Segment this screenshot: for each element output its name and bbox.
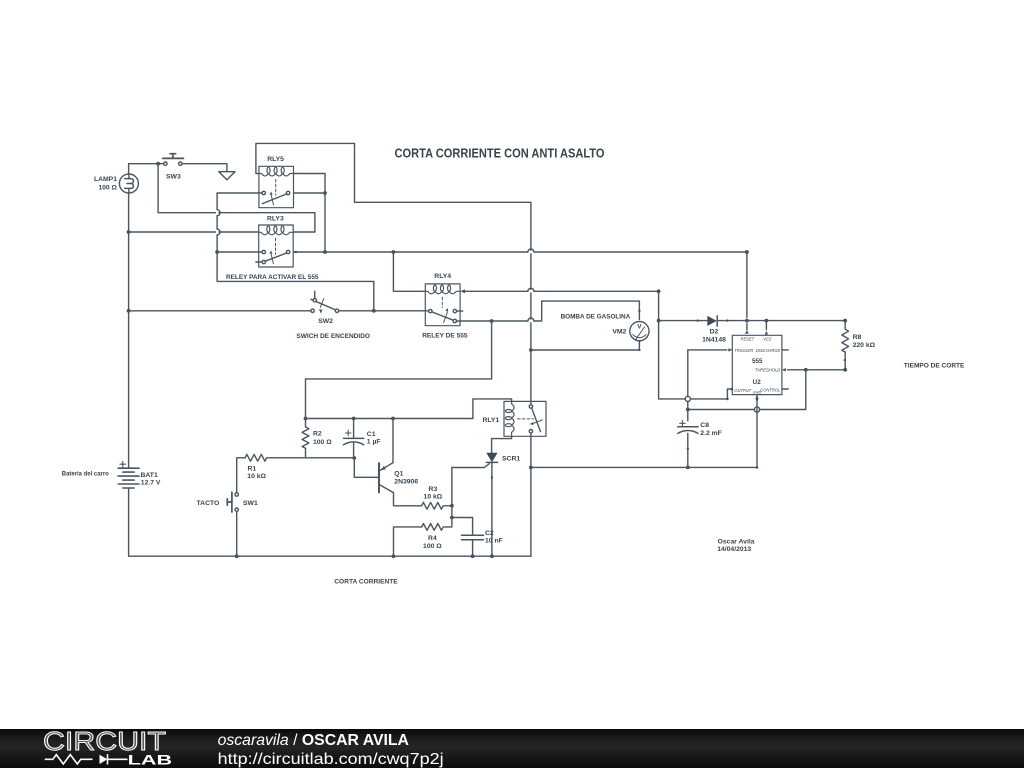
node rail dot y310.8 (127, 309, 131, 313)
svg-text:oscaravila / OSCAR AVILA: oscaravila / OSCAR AVILA (218, 732, 409, 749)
transistor Q1 2N3906 (378, 463, 394, 493)
svg-text:TRIGGER: TRIGGER (734, 348, 753, 353)
wire SW3 right to antenna (182, 164, 227, 172)
U2 pin RESET arrow (745, 330, 748, 334)
node terminal dot D2 left (697, 319, 699, 321)
svg-text:http://circuitlab.com/cwq7p2j: http://circuitlab.com/cwq7p2j (218, 751, 444, 768)
resistor R1 (245, 454, 267, 461)
switch SW1 pushbutton (227, 492, 238, 512)
node dot output pin (731, 388, 734, 391)
wire RLY4 contact to R2 top (306, 321, 492, 427)
svg-text:C1: C1 (367, 431, 376, 438)
svg-text:R3: R3 (429, 486, 438, 493)
wire RLY5 coil left loop (256, 143, 531, 202)
svg-text:2.2 mF: 2.2 mF (700, 430, 722, 437)
wire SCR gate horizontal (452, 464, 489, 468)
svg-text:R8: R8 (853, 334, 862, 341)
wire control stub (782, 388, 788, 390)
wire hop vertical x217 over y232 (217, 229, 220, 235)
wire bus to RLY4 coil left (393, 252, 425, 291)
U2 pin VCC arrow (765, 331, 768, 335)
antenna symbol (219, 172, 235, 180)
wire RLY3 left contact (217, 251, 262, 253)
wire SW1 bottom to rail (236, 511, 238, 556)
capacitor C1 polarized (344, 419, 364, 459)
node dot VCC junction (765, 319, 769, 323)
svg-text:D2: D2 (710, 329, 719, 336)
wire output return to 555 (659, 389, 732, 399)
svg-text:1 µF: 1 µF (367, 439, 381, 446)
node dot C1 bottom junction (352, 456, 356, 460)
lamp LAMP1 (119, 174, 138, 193)
svg-text:RLY5: RLY5 (267, 156, 284, 163)
voltmeter VM2 (630, 322, 649, 342)
switch SW2 (311, 291, 339, 313)
logo resistor squiggle (45, 755, 93, 764)
node dot x373.8 y310.8 (372, 309, 376, 313)
wire hop vertical x217 over y212.7 (217, 210, 220, 216)
wire threshold feedback (688, 370, 806, 410)
wire RLY1 bottom contact to rail (530, 433, 532, 556)
svg-text:12.7 V: 12.7 V (141, 479, 161, 486)
diode D2 (707, 316, 717, 326)
svg-text:RESET: RESET (741, 337, 755, 342)
node dot x530.9 y350 (529, 348, 533, 352)
capacitor C8 polarized (678, 421, 698, 434)
node dot threshold junction (804, 368, 808, 372)
svg-text:SW1: SW1 (243, 500, 258, 507)
svg-text:V: V (637, 324, 642, 331)
node rail dot SW1 (235, 554, 239, 558)
battery BAT1 (118, 461, 139, 488)
svg-text:C2: C2 (485, 530, 494, 537)
wire R3 right junction (444, 505, 452, 507)
node dot x530.9 y467.4 (529, 466, 533, 470)
wire SW2 to RLY4 left contact (339, 310, 429, 312)
thyristor SCR1 (486, 453, 497, 463)
wire SW3 loop to RLY3 coil right (158, 164, 315, 232)
svg-text:GND: GND (753, 390, 762, 394)
svg-text:220 kΩ: 220 kΩ (853, 342, 876, 349)
wire hop y252 over x530.9 (528, 249, 534, 252)
svg-text:10 kΩ: 10 kΩ (247, 473, 266, 480)
wire SCR gate link vertical (451, 468, 453, 518)
svg-text:VCC: VCC (763, 336, 772, 341)
capacitor C2 (462, 535, 484, 539)
wire R2 bottom R1 junction (267, 448, 354, 458)
wire R8 bottom lead (788, 352, 846, 370)
logo diode symbol (100, 755, 108, 764)
svg-text:C8: C8 (700, 422, 709, 429)
wire D2 line y320.6 (659, 321, 846, 330)
node rail dot y232 (127, 230, 131, 234)
svg-text:100 Ω: 100 Ω (423, 543, 442, 550)
svg-text:R2: R2 (313, 431, 322, 438)
node dot x727.4 y398.9 (726, 398, 729, 401)
node rail dot C2 (471, 554, 475, 558)
wire trigger to C8 (688, 350, 727, 421)
wire RLY5 coil right to bus (294, 174, 326, 253)
svg-text:10 nF: 10 nF (485, 538, 503, 545)
U2 pin GND arrow (755, 395, 758, 399)
node dot x325 y252 (323, 250, 327, 254)
svg-text:LAB: LAB (128, 753, 173, 768)
node dot R2 junction y418.5 (304, 417, 308, 421)
node dot x217 y252 (215, 250, 219, 254)
node junction dot SW3 left (156, 162, 160, 166)
wire hop y321 over x530.9 (528, 318, 534, 321)
node dot corner x845.2 y320.6 (843, 319, 847, 323)
wire RLY4 lower contact to pump loop (457, 301, 640, 321)
wire battery bottom to ground rail (129, 489, 531, 557)
node rail dot R4 (392, 554, 396, 558)
wire main vertical x530.9 (530, 202, 532, 404)
node dot corner x757 y467.4 (756, 466, 759, 469)
U2 pin TRIGGER arrow (728, 348, 732, 351)
node terminal dot RLY3 pin (295, 251, 297, 253)
svg-text:R4: R4 (428, 535, 437, 542)
relay RLY3 (256, 225, 293, 267)
svg-text:Q1: Q1 (394, 471, 403, 478)
wire Q1 collector to R3 (394, 493, 422, 506)
node dot x658.6 y320.6 (657, 319, 661, 323)
wire C8 bottom lead (687, 434, 689, 468)
wire discharge stub (782, 349, 788, 351)
wire RLY5 right contact (294, 192, 326, 194)
svg-text:OUTPUT: OUTPUT (734, 388, 751, 393)
wire hop circle x687.8 y398.9 (685, 396, 690, 401)
svg-text:THRESHOLD: THRESHOLD (755, 368, 780, 373)
node terminal dot SCR cathode (491, 476, 493, 478)
wire hop y291.3 over x530.9 (528, 288, 534, 291)
node dot corner x845.2 y369.8 (843, 368, 847, 372)
node terminal dot R8 bottom (844, 359, 846, 361)
wire junction to C2 (452, 518, 473, 535)
svg-text:SCR1: SCR1 (502, 456, 520, 463)
svg-text:DISCHARGE: DISCHARGE (756, 348, 781, 353)
wire R4 left to rail (394, 527, 422, 556)
svg-text:CORTA CORRIENTE: CORTA CORRIENTE (334, 579, 398, 586)
node rail dot SCR1 (490, 554, 494, 558)
wire vplus rail to RLY1 coil (306, 399, 512, 419)
wire SW2 line left (129, 310, 311, 312)
resistor R4 (422, 524, 444, 531)
resistor R2 (302, 427, 309, 448)
resistor R8 (842, 329, 849, 352)
wire R1 left to SW1 (237, 458, 245, 493)
svg-text:CORTA CORRIENTE CON ANTI ASALT: CORTA CORRIENTE CON ANTI ASALTO (395, 146, 605, 160)
wire C2 bottom to rail (472, 540, 474, 556)
svg-text:TACTO: TACTO (197, 500, 220, 507)
wire VM2 bottom to bus (531, 341, 640, 350)
node dot x491.6 y321 (490, 319, 494, 323)
svg-text:100 Ω: 100 Ω (98, 185, 117, 192)
svg-text:BOMBA DE GASOLINA: BOMBA DE GASOLINA (561, 314, 631, 321)
svg-text:2N3906: 2N3906 (394, 478, 418, 485)
wire hop circle x757 y409.5 (754, 407, 759, 412)
wire SCR cathode to rail (491, 463, 493, 557)
wire lamp rail to RLY3 coil left (129, 231, 259, 233)
node terminal dot VM2 top (638, 310, 640, 312)
svg-text:RLY3: RLY3 (267, 216, 284, 223)
svg-text:Oscar Avila: Oscar Avila (718, 539, 755, 546)
wire left rail lamp to battery (128, 193, 130, 468)
wire VCC stub (765, 321, 767, 330)
node terminal dot VM2 bottom (638, 349, 640, 351)
node dot C1 top (352, 417, 356, 421)
svg-text:100 Ω: 100 Ω (313, 439, 332, 446)
wire gnd bus y467.4 (531, 395, 757, 468)
svg-text:RELEY DE 555: RELEY DE 555 (422, 332, 467, 339)
node dot x325 y193 (323, 191, 327, 195)
node dot x393.4 y252 (392, 250, 396, 254)
relay RLY4 coil arrow (460, 289, 465, 293)
node dot x687.8 y409.5 (686, 408, 690, 412)
svg-text:RLY4: RLY4 (434, 273, 451, 280)
wire RLY1 coil bottom to SCR anode (492, 436, 512, 453)
node dot x451.9 y517.5 (450, 516, 454, 520)
svg-text:SWICH DE ENCENDIDO: SWICH DE ENCENDIDO (296, 333, 370, 340)
wire lamp top to SW3 (129, 164, 164, 174)
wire R4 right up to junction (444, 518, 452, 527)
svg-text:555: 555 (752, 358, 763, 365)
svg-text:10 kΩ: 10 kΩ (424, 494, 443, 501)
svg-text:TIEMPO DE CORTE: TIEMPO DE CORTE (904, 363, 965, 370)
svg-text:SW2: SW2 (318, 318, 333, 325)
node dot x687.8 y467.4 (686, 466, 690, 470)
svg-text:14/04/2013: 14/04/2013 (717, 546, 751, 553)
node dot corner x658.6 y291.3 (657, 289, 661, 293)
wire RLY3 right contact long bus y252 (293, 252, 747, 318)
svg-text:VM2: VM2 (612, 329, 626, 336)
svg-text:LAMP1: LAMP1 (94, 176, 117, 183)
resistor R3 (422, 502, 444, 509)
relay RLY5 (259, 166, 294, 207)
svg-text:RLY1: RLY1 (483, 417, 500, 424)
wire RLY4 coil right to x658.6 (463, 291, 659, 399)
svg-text:Bateria del carro: Bateria del carro (62, 471, 109, 478)
node dot x451.9 y506 (450, 504, 454, 508)
op-amp U2 555 box (732, 335, 782, 394)
node terminal dot gnd pin (756, 398, 758, 400)
wire reset drop to D2 wire (746, 324, 748, 330)
relay RLY1 (504, 401, 546, 436)
node terminal dot D2 right (726, 319, 728, 321)
svg-text:U2: U2 (753, 379, 762, 386)
U2 pin THRESHOLD arrow (782, 368, 786, 371)
node dot Q1 emitter top (391, 417, 395, 421)
wire Q1 emitter lead (392, 419, 394, 463)
node terminal dot C8 bottom (687, 447, 689, 449)
svg-text:R1: R1 (248, 466, 257, 473)
wire C1 junction down to Q1 base (354, 458, 378, 477)
svg-text:RELEY PARA ACTIVAR EL 555: RELEY PARA ACTIVAR EL 555 (226, 274, 319, 281)
svg-text:SW3: SW3 (166, 173, 181, 180)
node dot corner x746.9 y252 (745, 250, 749, 254)
svg-text:CONTROL: CONTROL (760, 387, 780, 392)
relay RLY4 (425, 284, 462, 326)
wire RLY5 left contact (217, 193, 374, 311)
svg-text:1N4148: 1N4148 (702, 337, 726, 344)
svg-text:BAT1: BAT1 (141, 472, 158, 479)
switch SW3 pushbutton (163, 154, 184, 166)
node dot x746.9 y320.6 (745, 319, 749, 323)
